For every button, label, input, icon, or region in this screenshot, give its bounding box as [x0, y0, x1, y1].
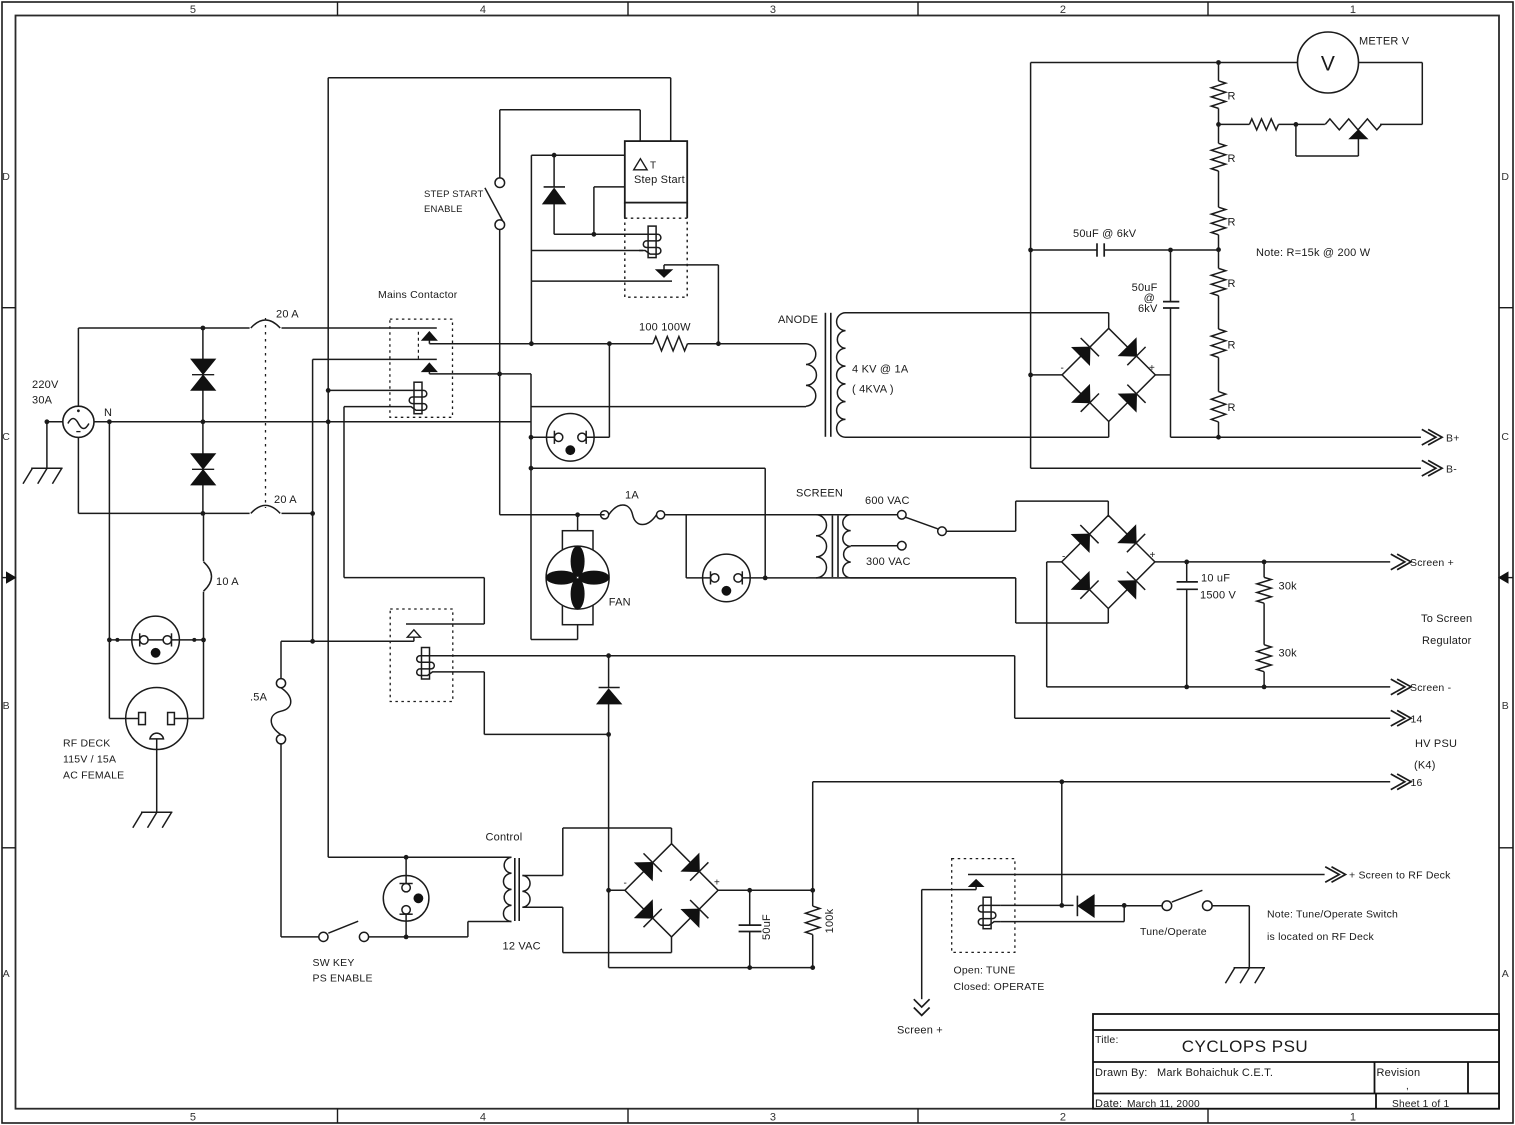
svg-text:115V / 15A: 115V / 15A: [63, 754, 116, 766]
svg-text:Tune/Operate: Tune/Operate: [1140, 926, 1207, 938]
svg-text:-: -: [1062, 552, 1066, 563]
svg-text:1: 1: [1350, 1112, 1356, 1124]
svg-text:SW KEY: SW KEY: [313, 957, 355, 969]
svg-text:2: 2: [1060, 4, 1066, 16]
svg-text:.5A: .5A: [250, 692, 268, 704]
svg-text:16: 16: [1411, 777, 1423, 789]
svg-text:30k: 30k: [1279, 648, 1298, 660]
svg-text:100 100W: 100 100W: [639, 322, 691, 334]
svg-text:B-: B-: [1446, 463, 1457, 475]
svg-text:20 A: 20 A: [274, 494, 297, 506]
svg-text:(K4): (K4): [1414, 760, 1436, 772]
svg-text:Screen +: Screen +: [1410, 557, 1454, 569]
svg-text:4: 4: [480, 1112, 486, 1124]
svg-text:Sheet 1 of 1: Sheet 1 of 1: [1392, 1099, 1449, 1110]
svg-text:Drawn By:: Drawn By:: [1095, 1067, 1148, 1079]
svg-text:300 VAC: 300 VAC: [866, 556, 911, 568]
svg-text:METER V: METER V: [1359, 36, 1410, 48]
svg-text:+ Screen to RF Deck: + Screen to RF Deck: [1349, 870, 1451, 882]
svg-text:100k: 100k: [824, 908, 836, 933]
svg-text:To Screen: To Screen: [1421, 613, 1472, 625]
svg-text:FAN: FAN: [609, 597, 631, 609]
svg-text:30A: 30A: [32, 395, 53, 407]
svg-text:12 VAC: 12 VAC: [503, 941, 541, 953]
svg-text:5: 5: [190, 4, 196, 16]
svg-text:D: D: [1501, 171, 1509, 183]
svg-text:Control: Control: [486, 832, 523, 844]
svg-text:1: 1: [1350, 4, 1356, 16]
svg-text:Note: Tune/Operate Switch: Note: Tune/Operate Switch: [1267, 909, 1398, 921]
svg-text:+: +: [1149, 363, 1155, 374]
svg-text:B: B: [3, 700, 10, 712]
svg-text:14: 14: [1411, 713, 1423, 725]
svg-text:50uF @ 6kV: 50uF @ 6kV: [1073, 228, 1137, 240]
svg-text:R: R: [1228, 402, 1236, 414]
svg-text:( 4KVA ): ( 4KVA ): [852, 384, 894, 396]
svg-text:CYCLOPS PSU: CYCLOPS PSU: [1182, 1037, 1308, 1056]
svg-text:Mark Bohaichuk C.E.T.: Mark Bohaichuk C.E.T.: [1157, 1067, 1273, 1079]
svg-text:March 11, 2000: March 11, 2000: [1127, 1099, 1200, 1110]
svg-text:Closed: OPERATE: Closed: OPERATE: [954, 981, 1045, 993]
svg-text:-: -: [624, 878, 628, 889]
svg-text:3: 3: [770, 4, 776, 16]
svg-text:PS ENABLE: PS ENABLE: [313, 973, 373, 985]
svg-text:Open: TUNE: Open: TUNE: [954, 965, 1016, 977]
svg-text:+: +: [1150, 550, 1156, 561]
svg-text:2: 2: [1060, 1112, 1066, 1124]
svg-text:R: R: [1228, 340, 1236, 352]
svg-text:ENABLE: ENABLE: [424, 204, 463, 215]
svg-text:A: A: [1502, 968, 1509, 980]
svg-text:6kV: 6kV: [1138, 303, 1158, 315]
svg-text:R: R: [1228, 91, 1236, 103]
svg-text:1500 V: 1500 V: [1200, 590, 1237, 602]
svg-text:Title:: Title:: [1095, 1034, 1119, 1046]
svg-text:C: C: [1501, 431, 1509, 443]
svg-text:Step Start: Step Start: [634, 174, 685, 186]
svg-text:+: +: [714, 878, 720, 889]
svg-text:1A: 1A: [625, 490, 639, 502]
svg-text:4: 4: [480, 4, 486, 16]
svg-text:50uF: 50uF: [761, 914, 773, 940]
svg-text:20 A: 20 A: [276, 309, 299, 321]
svg-text:Regulator: Regulator: [1422, 635, 1472, 647]
svg-text:AC FEMALE: AC FEMALE: [63, 770, 124, 782]
svg-text:RF DECK: RF DECK: [63, 738, 111, 750]
svg-text:Screen -: Screen -: [1410, 682, 1452, 694]
svg-text:R: R: [1228, 278, 1236, 290]
svg-text:N: N: [104, 407, 112, 419]
svg-text:SCREEN: SCREEN: [796, 488, 843, 500]
svg-text:10 uF: 10 uF: [1201, 573, 1230, 585]
svg-text:Revision: Revision: [1377, 1067, 1421, 1079]
svg-text:A: A: [3, 968, 10, 980]
svg-text:-: -: [1061, 363, 1065, 374]
svg-text:3: 3: [770, 1112, 776, 1124]
svg-text:R: R: [1228, 217, 1236, 229]
svg-text:R: R: [1228, 153, 1236, 165]
svg-text:600 VAC: 600 VAC: [865, 495, 910, 507]
svg-text:B+: B+: [1446, 433, 1460, 445]
svg-text:220V: 220V: [32, 379, 59, 391]
svg-text:Screen +: Screen +: [897, 1025, 943, 1037]
svg-text:V: V: [1321, 53, 1335, 76]
svg-text:is located on RF Deck: is located on RF Deck: [1267, 931, 1374, 943]
svg-text:Date:: Date:: [1095, 1098, 1122, 1110]
svg-text:Note: R=15k @ 200 W: Note: R=15k @ 200 W: [1256, 247, 1371, 259]
svg-text:Mains Contactor: Mains Contactor: [378, 289, 458, 301]
svg-text:D: D: [2, 171, 10, 183]
svg-text:T: T: [650, 161, 656, 172]
svg-text:5: 5: [190, 1112, 196, 1124]
svg-text:,: ,: [1406, 1081, 1409, 1092]
svg-text:4 KV @ 1A: 4 KV @ 1A: [852, 364, 909, 376]
svg-text:HV PSU: HV PSU: [1415, 738, 1457, 750]
svg-text:10 A: 10 A: [216, 576, 239, 588]
svg-text:B: B: [1502, 700, 1509, 712]
svg-text:STEP START: STEP START: [424, 189, 484, 200]
svg-text:30k: 30k: [1279, 581, 1298, 593]
svg-text:C: C: [2, 431, 10, 443]
svg-text:ANODE: ANODE: [778, 314, 818, 326]
